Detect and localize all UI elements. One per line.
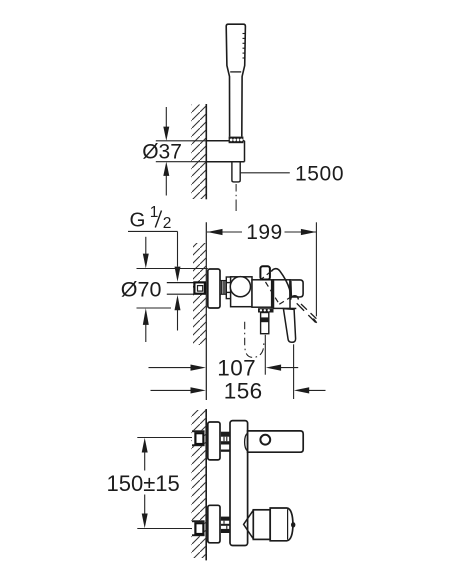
diverter knob on top [260, 266, 270, 279]
dimension Ø70 [121, 237, 208, 342]
mixer right body [274, 280, 297, 309]
top union rings [221, 432, 230, 452]
svg-text:G: G [130, 208, 146, 231]
bottom flange (side) [208, 505, 220, 543]
G1/2 supply stub in wall [167, 283, 194, 295]
extension line from hose outlet [264, 335, 266, 375]
dashed lever open position (upper edge) [260, 270, 272, 280]
wall hatching (bottom view) [191, 410, 206, 558]
head/handle joint line [230, 71, 241, 73]
bottom supply connection (knurled) [192, 520, 205, 536]
cartridge cap [290, 280, 303, 297]
knob end nub [291, 522, 295, 527]
threaded wall connection box [194, 282, 205, 293]
dimension 107 [149, 356, 299, 381]
svg-text:150±15: 150±15 [107, 471, 180, 496]
knurled ring of bracket [229, 137, 244, 144]
wall face line (top view) [205, 104, 207, 199]
hose centerline [235, 184, 237, 211]
top flange (side) [208, 422, 220, 460]
svg-text:Ø70: Ø70 [121, 278, 162, 302]
wall bracket arm [206, 141, 244, 162]
dashed lever open position (lower edge) [266, 282, 293, 304]
wall face line (bottom view) [205, 409, 207, 560]
lever hub edge [290, 281, 293, 296]
label G 1/2 [130, 204, 172, 232]
spout aerator hole [260, 435, 270, 445]
spout-body junction arc [245, 433, 248, 450]
lever handle (closed, pointing down) [283, 309, 295, 343]
top supply connection (knurled) [192, 430, 205, 446]
svg-text:156: 156 [224, 378, 263, 403]
hand shower hose connector [261, 313, 269, 334]
ball joint sphere [230, 277, 250, 297]
dimension 156 [151, 378, 326, 403]
bottom union rings [221, 517, 230, 533]
extension line from lever tip [293, 344, 295, 399]
hand shower head [226, 24, 245, 136]
svg-text:1500: 1500 [295, 163, 344, 186]
wall hatching (top view) [191, 105, 206, 200]
leader G1/2 [128, 231, 180, 330]
mixer middle body [252, 280, 274, 308]
lever grip hook [291, 296, 299, 300]
threaded stub between flange and nut [220, 281, 226, 295]
union nut [226, 277, 231, 299]
knob outer section [270, 508, 293, 541]
ball joint housing [231, 277, 252, 307]
svg-text:2: 2 [163, 215, 172, 232]
mixer vertical body (side) [230, 421, 248, 546]
svg-text:107: 107 [217, 356, 256, 381]
hose loop centerline [245, 322, 264, 358]
bath spout [248, 431, 304, 452]
dimension Ø37 [142, 107, 206, 196]
svg-text:Ø37: Ø37 [142, 141, 182, 164]
dashed lever swung-out bar [297, 303, 317, 323]
label 1500 with leader to hose [240, 163, 344, 186]
dimension 199 [207, 221, 316, 316]
shower hose stub [232, 162, 240, 182]
lever silhouette arc over body [271, 269, 298, 300]
wall hatching (middle view) [193, 243, 206, 345]
spray face dashes on head [243, 34, 245, 59]
wall face line (middle view) [205, 222, 207, 400]
hose outlet escutcheon [258, 308, 274, 312]
knob cone transition [244, 510, 254, 539]
svg-text:1: 1 [150, 204, 159, 221]
svg-text:199: 199 [246, 221, 282, 244]
wall flange (escutcheon) [208, 269, 220, 308]
dimension 150±15 [107, 438, 193, 529]
knob inner section [253, 510, 270, 540]
